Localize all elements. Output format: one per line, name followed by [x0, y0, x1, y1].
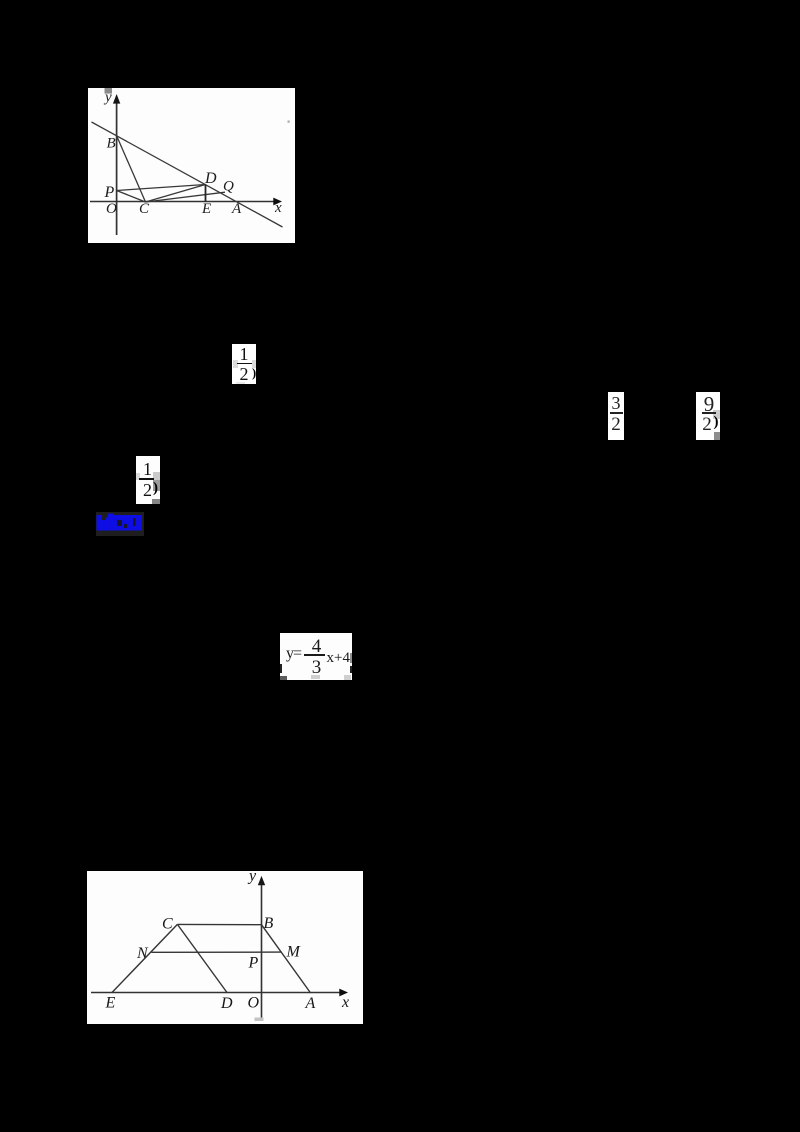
y-axis	[261, 883, 263, 1018]
fraction 3/2	[608, 392, 624, 440]
figure 1: coordinate plane with triangle BCD etc.	[88, 88, 295, 243]
wire C-D	[146, 185, 206, 203]
svg-text:y: y	[247, 871, 257, 885]
svg-text:C: C	[139, 201, 150, 217]
svg-text:x: x	[274, 200, 282, 216]
wire P-D	[117, 185, 206, 191]
wire B-A	[262, 925, 311, 993]
fraction 9/2 with paren	[696, 392, 720, 440]
wire D-E	[205, 185, 207, 202]
svg-text:D: D	[204, 170, 217, 187]
fraction 1/2 (first)	[232, 344, 256, 384]
wire N-M	[151, 951, 281, 953]
figure 2: trapezoid ECBA on axes	[87, 871, 363, 1024]
wire C-D	[177, 924, 227, 992]
speck under y-axis	[255, 1018, 264, 1022]
svg-text:B: B	[264, 915, 274, 932]
svg-text:x: x	[341, 994, 349, 1011]
wire C-B	[177, 923, 261, 925]
svg-text:A: A	[305, 995, 316, 1012]
y-axis	[116, 101, 118, 235]
wire C-Q	[146, 192, 226, 202]
svg-text:C: C	[162, 916, 173, 933]
svg-text:A: A	[231, 201, 242, 217]
line through B and A	[92, 122, 283, 227]
svg-text:N: N	[136, 945, 149, 962]
svg-text:O: O	[248, 995, 260, 1012]
x-axis	[91, 992, 341, 994]
svg-text:P: P	[248, 955, 259, 972]
wire P-C	[117, 191, 146, 203]
svg-text:M: M	[286, 944, 302, 961]
fraction 1/2 (second) with paren	[136, 456, 160, 504]
gray scan block over y label	[105, 88, 113, 94]
speck	[288, 121, 290, 123]
blue watermark label	[96, 512, 144, 536]
wire E-C	[112, 924, 177, 992]
svg-text:Q: Q	[223, 179, 234, 195]
svg-text:E: E	[201, 201, 211, 217]
svg-text:P: P	[104, 184, 115, 201]
wire B-C	[117, 136, 146, 202]
x-axis	[90, 201, 276, 203]
svg-text:E: E	[105, 995, 116, 1012]
svg-text:D: D	[220, 995, 233, 1012]
svg-text:B: B	[107, 136, 116, 152]
svg-text:O: O	[106, 201, 117, 217]
equation y=-4/3x+4 box	[280, 633, 352, 680]
svg-text:y: y	[103, 90, 112, 106]
